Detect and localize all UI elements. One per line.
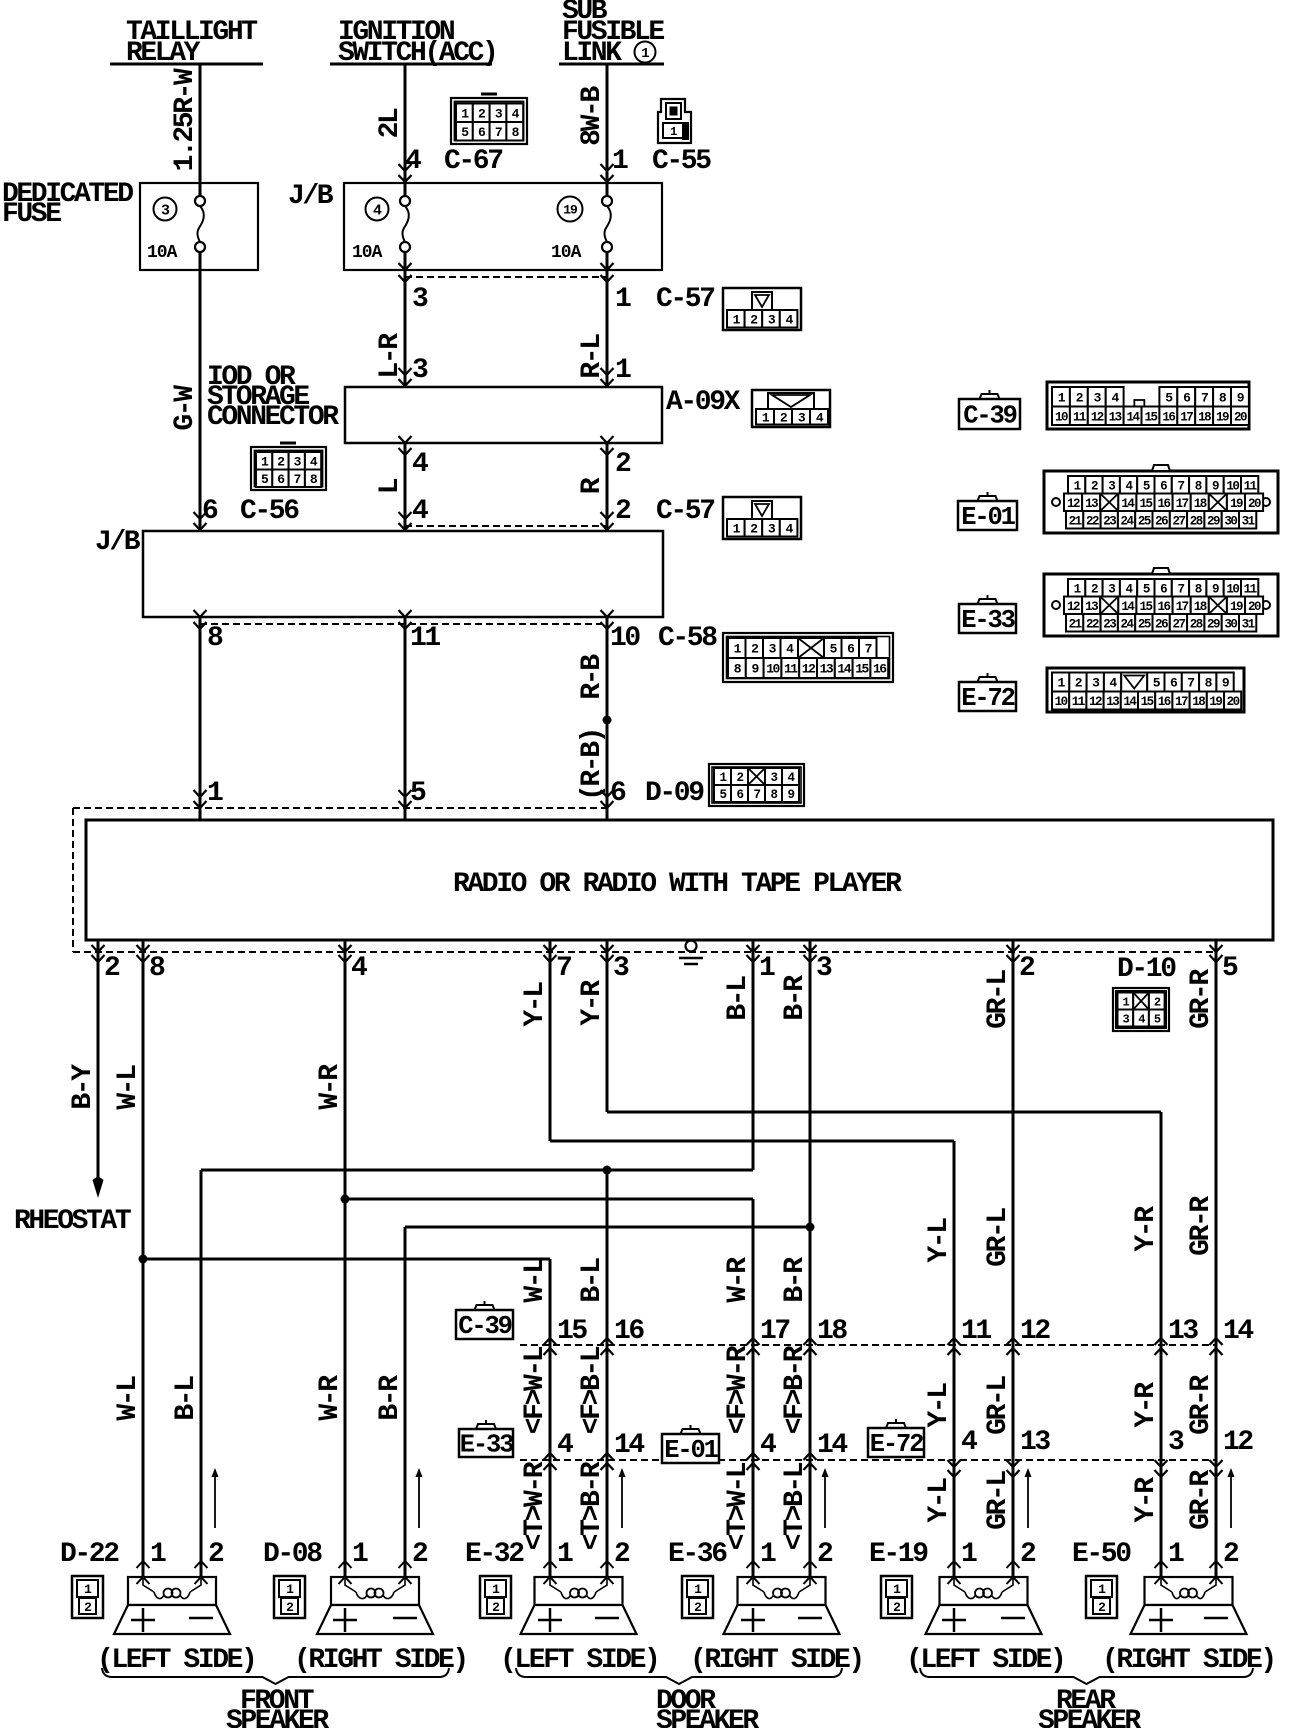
- svg-text:26: 26: [1155, 617, 1168, 631]
- svg-text:Y-L: Y-L: [924, 1383, 955, 1428]
- pin 13: [1155, 1338, 1168, 1345]
- svg-text:31: 31: [1242, 514, 1255, 528]
- svg-text:13: 13: [1106, 695, 1119, 709]
- svg-text:GR-L: GR-L: [983, 1376, 1014, 1435]
- svg-text:4: 4: [351, 953, 367, 984]
- svg-text:R-B: R-B: [577, 654, 608, 700]
- junction R-B: [603, 716, 612, 725]
- svg-text:7: 7: [294, 472, 301, 487]
- svg-text:W-R: W-R: [723, 1257, 754, 1303]
- connector D-10 icon: [1113, 988, 1169, 1031]
- svg-text:28: 28: [1190, 617, 1203, 631]
- svg-text:D-10: D-10: [1117, 954, 1176, 985]
- connector E-01 pins: [1044, 465, 1278, 533]
- svg-text:C-55: C-55: [652, 146, 711, 177]
- svg-text:6: 6: [202, 496, 218, 527]
- svg-text:5: 5: [1222, 953, 1238, 984]
- connector D-09 icon: [709, 764, 804, 806]
- svg-text:12: 12: [1067, 600, 1080, 614]
- svg-text:<F>W-R: <F>W-R: [723, 1345, 754, 1434]
- svg-text:12: 12: [1067, 497, 1080, 511]
- svg-text:(LEFT SIDE): (LEFT SIDE): [500, 1645, 658, 1676]
- svg-text:GR-R: GR-R: [1186, 969, 1217, 1029]
- connector C-57 icon 2: [723, 497, 801, 539]
- svg-text:28: 28: [1190, 514, 1203, 528]
- wire GR-L: [1012, 952, 1015, 1577]
- svg-text:4: 4: [412, 449, 428, 480]
- svg-text:12: 12: [1091, 410, 1104, 424]
- connector C-55: [658, 99, 691, 143]
- arrow continuation: [1228, 1468, 1235, 1528]
- fuse element 4: [400, 183, 410, 270]
- svg-text:13: 13: [1085, 600, 1098, 614]
- radio pin 7: [549, 940, 552, 952]
- svg-text:<T>B-L: <T>B-L: [780, 1462, 811, 1550]
- svg-text:5: 5: [410, 778, 426, 809]
- fuse element: [195, 183, 205, 270]
- wire B-R to front right speaker: [404, 1227, 407, 1577]
- svg-text:9: 9: [1212, 479, 1219, 493]
- svg-text:C-57: C-57: [656, 496, 714, 527]
- svg-text:12: 12: [802, 662, 816, 677]
- svg-text:W-R: W-R: [315, 1064, 346, 1110]
- wire Y-R down: [1160, 1112, 1163, 1577]
- wire Y-L horizontal: [550, 1140, 954, 1143]
- svg-text:29: 29: [1207, 514, 1220, 528]
- svg-text:17: 17: [1175, 695, 1188, 709]
- svg-text:1: 1: [286, 1582, 294, 1597]
- svg-text:8: 8: [207, 623, 223, 654]
- svg-text:L: L: [375, 478, 406, 494]
- svg-text:2: 2: [615, 496, 631, 527]
- svg-text:19: 19: [1230, 600, 1243, 614]
- svg-text:11: 11: [1073, 410, 1086, 424]
- svg-text:E-19: E-19: [869, 1539, 928, 1570]
- svg-text:12: 12: [1020, 1316, 1050, 1347]
- dashed connector line 2 (E-33/E-01/E-72): [520, 1459, 1216, 1461]
- svg-text:1: 1: [615, 284, 631, 315]
- svg-text:11: 11: [1244, 582, 1257, 596]
- svg-text:1: 1: [557, 1539, 573, 1570]
- svg-text:3: 3: [1108, 582, 1115, 596]
- svg-text:22: 22: [1086, 514, 1099, 528]
- svg-text:7: 7: [1187, 676, 1194, 691]
- pin 12: [1210, 1460, 1223, 1467]
- wire G-W: [199, 270, 202, 531]
- svg-text:17: 17: [1180, 410, 1193, 424]
- svg-text:B-L: B-L: [171, 1376, 202, 1421]
- wire R-L: [606, 270, 609, 387]
- svg-text:24: 24: [1121, 514, 1135, 528]
- svg-text:16: 16: [1162, 410, 1175, 424]
- wire G-W lower: [199, 617, 202, 820]
- svg-text:E-01: E-01: [961, 503, 1015, 532]
- wire Y-L down: [953, 1141, 956, 1577]
- svg-text:27: 27: [1172, 617, 1185, 631]
- svg-text:4: 4: [412, 496, 428, 527]
- dashed connector C-58: [200, 623, 607, 625]
- wire Y-R: [606, 952, 609, 1112]
- svg-text:10: 10: [1226, 479, 1239, 493]
- svg-text:Y-R: Y-R: [1131, 1382, 1162, 1428]
- arrow continuation: [822, 1468, 829, 1528]
- radio pin 3: [809, 940, 812, 952]
- svg-text:10A: 10A: [147, 243, 178, 263]
- pin 3: [1155, 1460, 1168, 1467]
- connector E-33 label: [459, 1420, 513, 1460]
- svg-text:(RIGHT SIDE): (RIGHT SIDE): [1102, 1645, 1275, 1676]
- svg-text:5: 5: [1143, 582, 1150, 596]
- svg-text:15: 15: [557, 1316, 587, 1347]
- svg-text:1: 1: [719, 771, 726, 785]
- svg-text:30: 30: [1224, 617, 1237, 631]
- svg-text:B-Y: B-Y: [68, 1064, 99, 1110]
- svg-text:2: 2: [893, 1600, 901, 1615]
- pin 4: [544, 1453, 557, 1460]
- svg-text:(RIGHT SIDE): (RIGHT SIDE): [690, 1645, 863, 1676]
- radio pin 2: [1012, 940, 1015, 952]
- svg-text:A-09X: A-09X: [666, 387, 741, 418]
- svg-text:D-22: D-22: [60, 1539, 119, 1570]
- svg-text:<T>W-L: <T>W-L: [723, 1462, 754, 1550]
- svg-text:2: 2: [104, 953, 120, 984]
- svg-text:1.25R-W: 1.25R-W: [170, 68, 201, 171]
- svg-text:15: 15: [855, 662, 869, 677]
- svg-text:E-50: E-50: [1072, 1539, 1131, 1570]
- svg-text:18: 18: [1198, 410, 1211, 424]
- dashed connector C-57: [405, 276, 607, 278]
- radio dashed connector outline: [72, 808, 74, 952]
- svg-text:8: 8: [1195, 582, 1202, 596]
- fuse element 19: [602, 183, 612, 270]
- pin 12: [1007, 1338, 1020, 1345]
- wire L: [404, 443, 407, 531]
- junction W-R: [341, 1195, 350, 1204]
- svg-text:4: 4: [405, 146, 421, 177]
- svg-text:SPEAKER: SPEAKER: [656, 1706, 759, 1728]
- svg-text:2: 2: [84, 1600, 92, 1615]
- svg-text:1: 1: [612, 146, 628, 177]
- connector E-01 label: [662, 1425, 719, 1465]
- dashed connector line C-39 (door/rear pins): [520, 1344, 1216, 1346]
- svg-text:3: 3: [816, 953, 832, 984]
- svg-text:11: 11: [1244, 479, 1257, 493]
- pin 4: [747, 1453, 760, 1460]
- svg-text:30: 30: [1224, 514, 1237, 528]
- connector C-58 icon: [723, 633, 893, 682]
- svg-text:4: 4: [557, 1430, 573, 1461]
- svg-text:C-39: C-39: [963, 402, 1016, 431]
- svg-text:RHEOSTAT: RHEOSTAT: [14, 1206, 131, 1237]
- svg-text:3: 3: [412, 284, 428, 315]
- connector C-56 icon: [251, 443, 326, 490]
- svg-text:23: 23: [1103, 617, 1116, 631]
- brace front speaker: [102, 1668, 449, 1684]
- svg-text:3: 3: [412, 355, 428, 386]
- brace door speaker: [516, 1668, 842, 1684]
- wire R: [606, 443, 609, 531]
- wire W-L: [142, 952, 145, 1577]
- svg-text:5: 5: [719, 788, 726, 802]
- svg-text:8: 8: [149, 953, 165, 984]
- svg-text:29: 29: [1207, 617, 1220, 631]
- wire B-L to front left speaker: [200, 1170, 203, 1577]
- svg-text:1: 1: [893, 1582, 901, 1597]
- wire Y-R horizontal: [607, 1111, 1161, 1114]
- wire 1.25R-W from taillight relay: [199, 64, 202, 183]
- svg-text:4: 4: [760, 1430, 776, 1461]
- svg-text:16: 16: [1158, 497, 1171, 511]
- svg-text:21: 21: [1069, 617, 1082, 631]
- radio pin 8: [142, 940, 145, 952]
- svg-text:14: 14: [1121, 497, 1135, 511]
- svg-text:1: 1: [352, 1539, 368, 1570]
- svg-text:23: 23: [1103, 514, 1116, 528]
- svg-text:14: 14: [817, 1430, 847, 1461]
- svg-text:2L: 2L: [375, 108, 406, 138]
- svg-text:12: 12: [1089, 695, 1102, 709]
- svg-text:25: 25: [1138, 617, 1151, 631]
- connector C-57 icon: [723, 288, 801, 330]
- radio pin 1: [752, 940, 755, 952]
- radio pin 2: [97, 940, 100, 952]
- svg-text:10A: 10A: [352, 243, 383, 263]
- svg-text:(R-B): (R-B): [577, 729, 608, 801]
- wire B-Y to rheostat: [97, 952, 100, 1179]
- svg-text:2: 2: [614, 1539, 630, 1570]
- connector C-39: [959, 390, 1020, 431]
- svg-text:2: 2: [1020, 1539, 1036, 1570]
- svg-text:E-72: E-72: [870, 1430, 923, 1459]
- svg-text:<F>B-R: <F>B-R: [780, 1345, 811, 1434]
- connector E-33 pins: [1044, 568, 1278, 636]
- wire L-R: [404, 270, 407, 387]
- svg-text:2: 2: [1098, 1600, 1106, 1615]
- connector E-33: [959, 595, 1016, 635]
- wire B-R horizontal: [405, 1226, 810, 1229]
- svg-text:2: 2: [1091, 582, 1098, 596]
- svg-text:10: 10: [1055, 695, 1068, 709]
- svg-text:B-R: B-R: [780, 975, 811, 1021]
- svg-text:G-W: G-W: [170, 385, 201, 431]
- wire W-R branch down: [752, 1199, 755, 1577]
- svg-text:1: 1: [1074, 479, 1081, 493]
- svg-text:1: 1: [1074, 582, 1081, 596]
- svg-text:16: 16: [873, 662, 887, 677]
- svg-text:15: 15: [1144, 410, 1157, 424]
- wire 8W-B from sub fusible link: [606, 64, 609, 183]
- wire Y-L: [549, 952, 552, 1141]
- connector A-09X icon: [752, 390, 830, 427]
- svg-text:12: 12: [1223, 1427, 1253, 1458]
- svg-text:13: 13: [1168, 1316, 1198, 1347]
- svg-text:14: 14: [1127, 410, 1141, 424]
- radio pin 5: [1215, 940, 1218, 952]
- dashed connector C-57: [405, 525, 607, 527]
- svg-text:GR-L: GR-L: [983, 970, 1014, 1029]
- svg-text:15: 15: [1141, 695, 1154, 709]
- svg-text:2: 2: [1019, 953, 1035, 984]
- svg-text:Y-R: Y-R: [1131, 1206, 1162, 1252]
- svg-text:2: 2: [492, 1600, 500, 1615]
- svg-text:14: 14: [1223, 1316, 1253, 1347]
- svg-text:1: 1: [84, 1582, 92, 1597]
- svg-text:2: 2: [1223, 1539, 1239, 1570]
- radio pin 3: [606, 940, 609, 952]
- svg-text:25: 25: [1138, 514, 1151, 528]
- svg-text:C-58: C-58: [658, 623, 717, 654]
- svg-text:E-32: E-32: [465, 1539, 524, 1570]
- connector E-01: [958, 492, 1017, 532]
- svg-text:10: 10: [610, 623, 640, 654]
- svg-text:Y-L: Y-L: [924, 1218, 955, 1263]
- svg-text:Y-L: Y-L: [520, 982, 551, 1027]
- svg-text:13: 13: [1109, 410, 1122, 424]
- svg-text:GR-L: GR-L: [983, 1208, 1014, 1267]
- svg-text:11: 11: [410, 623, 440, 654]
- svg-text:B-R: B-R: [780, 1257, 811, 1303]
- wire W-L horizontal: [143, 1258, 550, 1261]
- svg-text:C-67: C-67: [444, 146, 502, 177]
- svg-text:15: 15: [1139, 497, 1152, 511]
- svg-text:E-33: E-33: [961, 606, 1014, 635]
- svg-text:J/B: J/B: [288, 181, 334, 212]
- svg-text:6: 6: [1160, 582, 1167, 596]
- svg-text:(LEFT SIDE): (LEFT SIDE): [97, 1645, 255, 1676]
- svg-text:9: 9: [787, 788, 794, 802]
- svg-text:<T>W-R: <T>W-R: [520, 1461, 551, 1550]
- svg-text:1: 1: [1168, 1539, 1184, 1570]
- svg-text:7: 7: [495, 125, 502, 140]
- svg-text:20: 20: [1227, 695, 1240, 709]
- connector box A-09X: [345, 387, 662, 443]
- svg-text:21: 21: [1069, 514, 1082, 528]
- pin 4: [948, 1460, 961, 1467]
- svg-text:24: 24: [1121, 617, 1135, 631]
- svg-text:3: 3: [161, 202, 170, 219]
- ground symbol: [679, 941, 703, 965]
- svg-text:31: 31: [1242, 617, 1255, 631]
- svg-text:14: 14: [614, 1430, 644, 1461]
- wire B-L horizontal: [201, 1169, 753, 1172]
- svg-text:27: 27: [1172, 514, 1185, 528]
- pin 18: [804, 1338, 817, 1345]
- radio unit box: [86, 820, 1273, 940]
- fuse 4: [366, 198, 389, 221]
- wire W-R: [344, 952, 347, 1577]
- wire B-L branch down: [606, 1170, 609, 1577]
- svg-text:8W-B: 8W-B: [577, 86, 608, 146]
- svg-text:13: 13: [1085, 497, 1098, 511]
- svg-text:1: 1: [1098, 1582, 1106, 1597]
- svg-text:4: 4: [373, 202, 382, 219]
- svg-text:9: 9: [1212, 582, 1219, 596]
- svg-text:13: 13: [820, 662, 834, 677]
- arrow continuation: [212, 1468, 219, 1528]
- svg-text:1: 1: [694, 1582, 702, 1597]
- svg-text:7: 7: [1177, 479, 1184, 493]
- svg-text:2: 2: [694, 1600, 702, 1615]
- wire B-L: [752, 952, 755, 1170]
- svg-text:B-L: B-L: [723, 976, 754, 1021]
- arrow continuation: [416, 1468, 423, 1528]
- svg-text:C-57: C-57: [656, 284, 714, 315]
- svg-text:SPEAKER: SPEAKER: [226, 1706, 329, 1728]
- connector C-67: [451, 94, 527, 144]
- svg-text:B-L: B-L: [577, 1258, 608, 1303]
- pin 15: [544, 1338, 557, 1345]
- svg-text:15: 15: [1139, 600, 1152, 614]
- svg-text:E-72: E-72: [961, 684, 1014, 713]
- svg-text:1: 1: [207, 778, 223, 809]
- svg-text:W-L: W-L: [113, 1065, 144, 1110]
- svg-text:GR-R: GR-R: [1186, 1375, 1217, 1435]
- svg-text:<F>W-L: <F>W-L: [520, 1346, 551, 1434]
- svg-text:GR-R: GR-R: [1186, 1470, 1217, 1530]
- svg-text:20: 20: [1234, 410, 1247, 424]
- svg-text:3: 3: [613, 953, 629, 984]
- svg-text:CONNECTOR: CONNECTOR: [207, 402, 339, 433]
- wire R-B: [606, 617, 609, 820]
- svg-text:E-33: E-33: [460, 1431, 513, 1460]
- svg-text:8: 8: [770, 788, 777, 802]
- wire L lower: [404, 617, 407, 820]
- arrow continuation: [619, 1468, 626, 1528]
- pin 17: [747, 1338, 760, 1345]
- connector C-39 label: [456, 1301, 513, 1341]
- svg-text:19: 19: [563, 203, 578, 218]
- svg-text:10: 10: [1226, 582, 1239, 596]
- svg-text:2: 2: [412, 1539, 428, 1570]
- svg-text:5: 5: [1143, 479, 1150, 493]
- svg-text:FUSE: FUSE: [2, 199, 61, 230]
- fuse 19: [558, 197, 583, 222]
- svg-text:14: 14: [1123, 695, 1137, 709]
- svg-text:C-39: C-39: [458, 1312, 511, 1341]
- svg-text:11: 11: [1072, 695, 1085, 709]
- svg-text:7: 7: [1177, 582, 1184, 596]
- svg-text:E-01: E-01: [664, 1436, 718, 1465]
- connector E-72 label: [868, 1419, 924, 1459]
- arrow continuation: [1025, 1468, 1032, 1528]
- svg-text:D-09: D-09: [645, 778, 704, 809]
- svg-text:1: 1: [641, 46, 649, 62]
- svg-text:18: 18: [817, 1316, 847, 1347]
- svg-text:W-L: W-L: [520, 1258, 551, 1303]
- wire B-R: [809, 952, 812, 1577]
- svg-text:D-08: D-08: [263, 1539, 322, 1570]
- pin 14: [804, 1453, 817, 1460]
- svg-text:Y-R: Y-R: [577, 980, 608, 1026]
- svg-text:11: 11: [784, 662, 798, 677]
- dedicated fuse box: [140, 183, 258, 270]
- svg-text:7: 7: [865, 642, 872, 657]
- svg-text:3: 3: [1108, 479, 1115, 493]
- svg-text:W-R: W-R: [315, 1375, 346, 1421]
- svg-text:B-R: B-R: [375, 1375, 406, 1421]
- svg-text:1: 1: [492, 1582, 500, 1597]
- junction B-R: [806, 1223, 815, 1232]
- svg-text:18: 18: [1194, 600, 1207, 614]
- svg-text:SPEAKER: SPEAKER: [1038, 1706, 1141, 1728]
- svg-text:<F>B-L: <F>B-L: [577, 1346, 608, 1434]
- svg-text:Y-L: Y-L: [924, 1478, 955, 1523]
- J/B box 2: [143, 531, 663, 617]
- svg-text:3: 3: [1168, 1427, 1184, 1458]
- wire GR-R: [1215, 952, 1218, 1577]
- svg-text:11: 11: [961, 1316, 991, 1347]
- svg-text:7: 7: [556, 953, 571, 984]
